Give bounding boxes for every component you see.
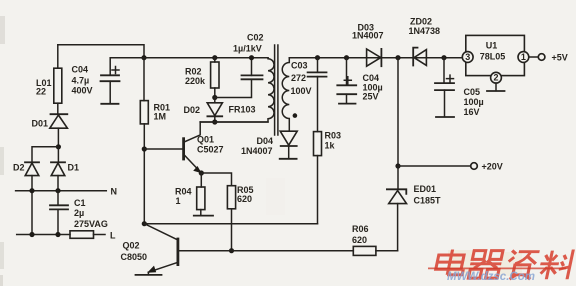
capacitor C05: [435, 58, 454, 117]
resistor R02: [211, 58, 219, 98]
svg-text:D02: D02: [184, 105, 201, 115]
resistor R04: [197, 173, 205, 215]
svg-text:D04: D04: [257, 136, 274, 146]
ground C04 secondary: [339, 103, 356, 105]
svg-text:C1: C1: [74, 198, 86, 208]
wire U1 output: [529, 56, 539, 58]
node main HV junction: [141, 55, 146, 60]
svg-text:100µ: 100µ: [464, 97, 484, 107]
svg-text:4.7µ: 4.7µ: [72, 76, 90, 86]
node D02 cathode: [212, 119, 217, 124]
node Q01 base tap: [142, 146, 147, 151]
transformer core: [274, 45, 276, 135]
capacitor C04: [101, 67, 120, 104]
svg-text:C05: C05: [464, 87, 481, 97]
svg-text:400V: 400V: [72, 86, 93, 96]
svg-text:2: 2: [493, 73, 498, 83]
svg-text:C185T: C185T: [414, 196, 442, 206]
wire base drive line right: [376, 250, 398, 252]
node C05 top: [441, 55, 446, 60]
ground Q02 emitter: [136, 274, 162, 276]
svg-text:ED01: ED01: [414, 184, 437, 194]
diode D04: [280, 131, 297, 158]
svg-text:272: 272: [291, 73, 306, 83]
node D2-N: [29, 188, 34, 193]
fuse on L line: [70, 231, 94, 239]
node C1-L: [55, 232, 60, 237]
svg-text:22: 22: [36, 87, 46, 97]
wire U1 pin2 ground lead: [495, 83, 497, 91]
node D1-N: [55, 188, 60, 193]
svg-text:C02: C02: [247, 32, 264, 42]
svg-text:1N4007: 1N4007: [352, 31, 384, 41]
capacitor C04 secondary: [337, 58, 356, 104]
node C04 top: [344, 55, 349, 60]
svg-text:620: 620: [352, 235, 367, 245]
wire bottom feedback line: [144, 223, 317, 225]
svg-text:1: 1: [176, 196, 181, 206]
node D2-L: [29, 232, 34, 237]
svg-text:78L05: 78L05: [480, 52, 506, 62]
svg-text:1k: 1k: [325, 141, 336, 151]
watermark: [448, 250, 522, 276]
node R05 bottom: [229, 248, 234, 253]
wire branch to C04: [110, 58, 144, 75]
ground R04: [194, 215, 213, 217]
svg-text:U1: U1: [486, 41, 498, 51]
node +20V terminal: [471, 163, 478, 170]
svg-text:1N4007: 1N4007: [241, 146, 273, 156]
wire top-left rail: [58, 45, 144, 58]
inductor L01: [54, 45, 62, 114]
svg-text:+20V: +20V: [482, 162, 503, 172]
svg-text:R04: R04: [175, 187, 192, 197]
wire L line right: [94, 234, 106, 236]
node C03 top: [315, 55, 320, 60]
svg-text:R03: R03: [325, 131, 342, 141]
diode ED01: [387, 166, 407, 251]
watermark strike line: [428, 267, 566, 269]
svg-text:1µ/1kV: 1µ/1kV: [233, 44, 262, 54]
svg-text:FR103: FR103: [229, 105, 256, 115]
node D03-ZD02 junction: [395, 55, 400, 60]
diode D02: [207, 98, 222, 123]
svg-text:+5V: +5V: [552, 53, 568, 63]
svg-text:1: 1: [521, 52, 526, 62]
wire neutral N line: [16, 190, 107, 192]
svg-text:620: 620: [237, 194, 252, 204]
svg-text:ZD02: ZD02: [410, 17, 432, 27]
svg-text:D2: D2: [13, 163, 25, 173]
wire secondary rail: [289, 57, 462, 59]
svg-text:100V: 100V: [291, 86, 312, 96]
svg-text:C03: C03: [291, 61, 308, 71]
capacitor C1: [50, 191, 68, 235]
svg-text:N: N: [111, 187, 118, 197]
wire R01 down: [143, 124, 145, 224]
svg-text:C5027: C5027: [197, 145, 224, 155]
svg-text:MWW.dzsc.Com: MWW.dzsc.Com: [447, 271, 535, 283]
svg-text:275VAG: 275VAG: [74, 219, 108, 229]
zener ZD02: [413, 48, 426, 66]
svg-text:C04: C04: [363, 73, 380, 83]
ground D04: [280, 158, 297, 160]
transformer T1 secondary: [282, 58, 289, 131]
wire snubber top link: [215, 79, 252, 97]
diode D03: [367, 49, 382, 66]
transformer T1 primary: [200, 58, 274, 122]
resistor R06: [353, 246, 376, 255]
node C02 top: [249, 55, 254, 60]
diode D2: [25, 162, 39, 234]
op-amp U1 78L05 regulator: [462, 35, 528, 83]
svg-text:R02: R02: [185, 67, 202, 77]
node R02 bottom / D02 anode: [212, 95, 217, 100]
svg-text:16V: 16V: [464, 107, 480, 117]
svg-text:Q01: Q01: [197, 135, 214, 145]
svg-text:L: L: [110, 230, 116, 240]
svg-text:R06: R06: [352, 224, 369, 234]
wire collector line to primary: [200, 121, 268, 123]
svg-text:1M: 1M: [154, 112, 167, 122]
node +5V terminal: [538, 54, 545, 61]
transistor Q02: [144, 224, 179, 275]
resistor R05: [201, 173, 235, 251]
svg-text:C04: C04: [72, 65, 89, 75]
capacitor C03: [308, 58, 327, 132]
diode D01: [50, 114, 68, 147]
svg-text:25V: 25V: [363, 92, 379, 102]
wire to +20V terminal: [398, 165, 471, 167]
transformer phase dot: [293, 113, 298, 118]
wire +20V branch vertical: [397, 58, 399, 166]
wire live L line: [17, 234, 70, 236]
resistor R01: [140, 101, 148, 124]
transistor Q01: [144, 122, 201, 173]
ground U1 pin2: [487, 90, 505, 92]
svg-text:D1: D1: [68, 163, 80, 173]
svg-text:220k: 220k: [185, 76, 206, 86]
node +20V junction: [395, 163, 400, 168]
svg-text:C8050: C8050: [121, 252, 148, 262]
svg-text:1N4738: 1N4738: [409, 26, 441, 36]
svg-text:3: 3: [465, 52, 470, 62]
node Q01 emitter: [199, 170, 204, 175]
node R02 top: [212, 55, 217, 60]
resistor R03: [314, 132, 322, 224]
wire base drive line left: [179, 250, 353, 252]
node bottom-left junction: [142, 221, 147, 226]
capacitor C02: [242, 58, 263, 80]
svg-text:Q02: Q02: [123, 241, 140, 251]
wire main HV rail: [144, 57, 268, 59]
ground C05: [436, 116, 454, 118]
svg-text:2µ: 2µ: [74, 208, 84, 218]
diode D1: [51, 147, 65, 191]
wire junction to R01: [143, 58, 145, 101]
svg-text:D01: D01: [32, 119, 49, 129]
wire to D2 branch: [32, 147, 58, 162]
node D01 cathode junction: [56, 144, 61, 149]
